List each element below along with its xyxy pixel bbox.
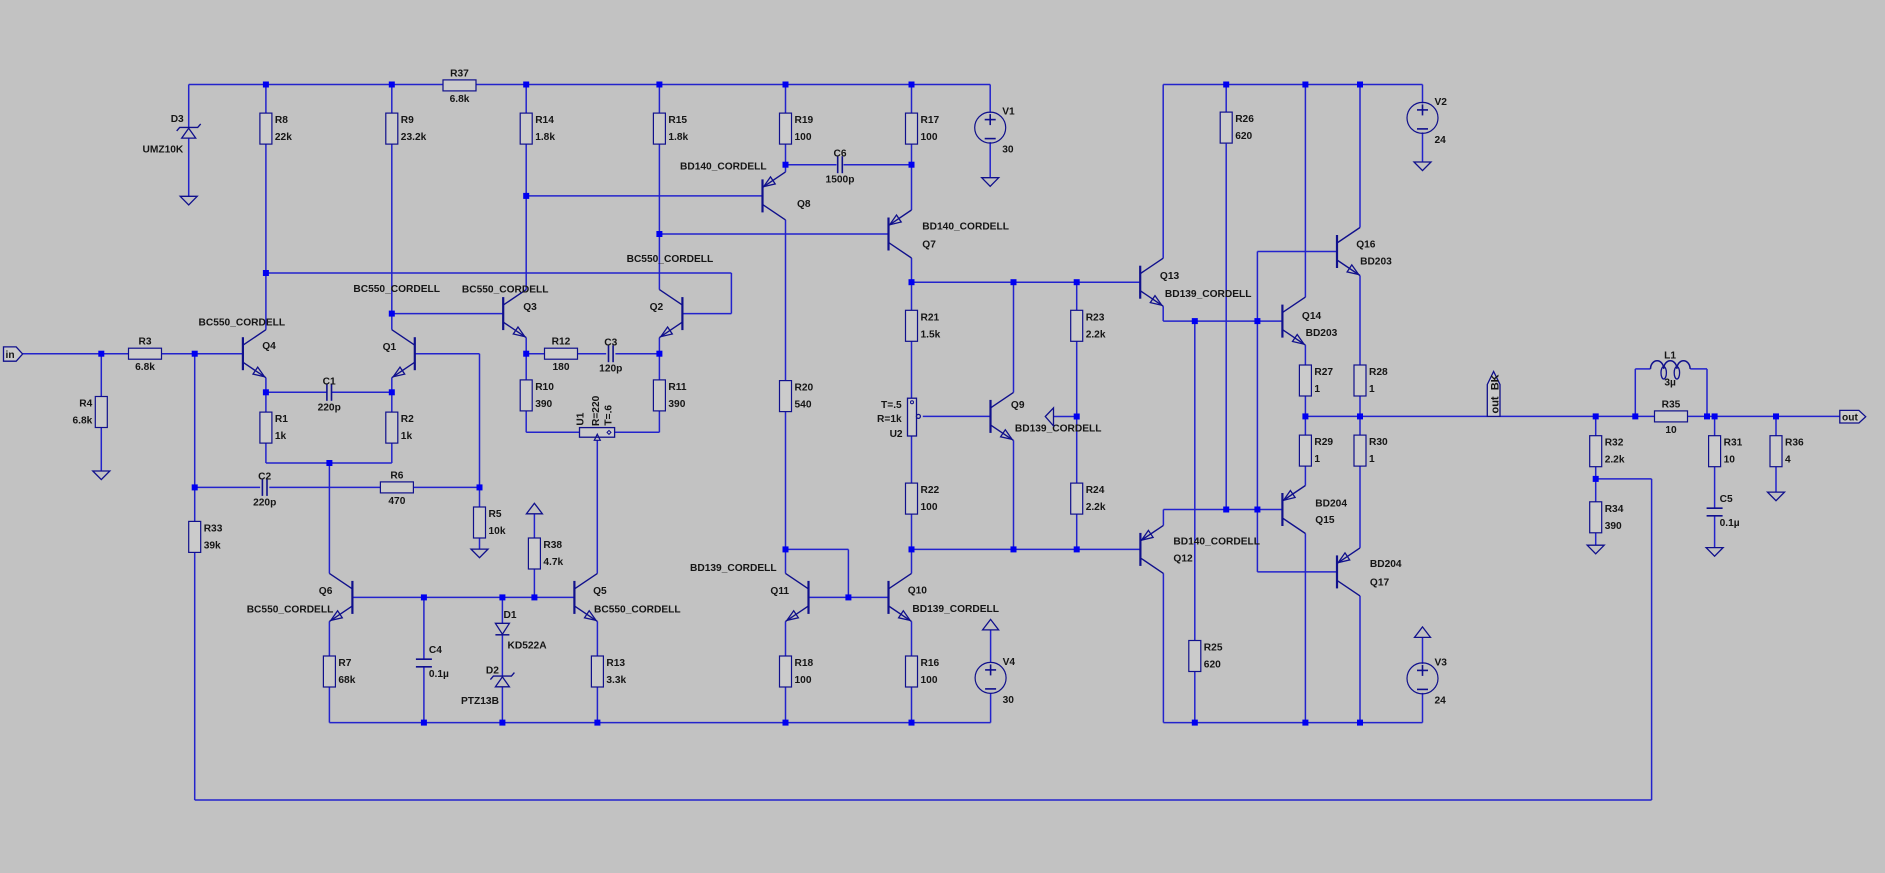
svg-text:D3: D3: [171, 114, 184, 125]
svg-text:Q15: Q15: [1315, 515, 1335, 526]
svg-text:470: 470: [388, 496, 405, 507]
svg-text:R2: R2: [401, 414, 414, 425]
svg-text:1: 1: [1314, 384, 1320, 395]
svg-text:BD139_CORDELL: BD139_CORDELL: [690, 563, 777, 574]
svg-text:R17: R17: [921, 115, 940, 126]
svg-text:V2: V2: [1435, 97, 1448, 108]
svg-text:L1: L1: [1664, 351, 1676, 362]
svg-text:BD139_CORDELL: BD139_CORDELL: [1165, 289, 1252, 300]
svg-text:C2: C2: [258, 471, 271, 482]
svg-text:220p: 220p: [253, 497, 276, 508]
svg-text:Q2: Q2: [650, 302, 664, 313]
svg-text:BD140_CORDELL: BD140_CORDELL: [922, 221, 1009, 232]
svg-text:R24: R24: [1086, 485, 1105, 496]
svg-text:540: 540: [795, 400, 812, 411]
svg-text:1500p: 1500p: [826, 175, 855, 186]
svg-text:R1: R1: [275, 414, 288, 425]
svg-text:C1: C1: [323, 376, 336, 387]
svg-text:120p: 120p: [599, 364, 622, 375]
svg-text:R6: R6: [390, 470, 403, 481]
svg-text:BC550_CORDELL: BC550_CORDELL: [199, 317, 286, 328]
svg-text:R12: R12: [552, 337, 571, 348]
svg-text:1: 1: [1369, 384, 1375, 395]
svg-text:1k: 1k: [401, 431, 413, 442]
svg-text:V1: V1: [1002, 107, 1015, 118]
svg-text:100: 100: [795, 132, 812, 143]
svg-text:R13: R13: [606, 658, 625, 669]
svg-text:68k: 68k: [338, 675, 355, 686]
svg-text:BC550_CORDELL: BC550_CORDELL: [462, 285, 549, 296]
svg-text:Q3: Q3: [523, 302, 537, 313]
svg-text:R20: R20: [795, 383, 814, 394]
svg-text:BD203: BD203: [1306, 328, 1338, 339]
svg-text:Q4: Q4: [262, 341, 276, 352]
svg-text:BD140_CORDELL: BD140_CORDELL: [1173, 536, 1260, 547]
svg-text:Q7: Q7: [922, 240, 936, 251]
svg-text:V3: V3: [1435, 657, 1448, 668]
svg-text:R33: R33: [204, 523, 223, 534]
svg-text:BC550_CORDELL: BC550_CORDELL: [594, 605, 681, 616]
svg-text:PTZ13B: PTZ13B: [461, 696, 499, 707]
svg-text:BD204: BD204: [1315, 499, 1347, 510]
svg-text:D2: D2: [486, 666, 499, 677]
svg-text:D1: D1: [504, 610, 517, 621]
svg-text:out: out: [1842, 413, 1858, 424]
svg-text:R36: R36: [1785, 438, 1804, 449]
svg-text:R28: R28: [1369, 367, 1388, 378]
svg-text:1.5k: 1.5k: [921, 329, 941, 340]
svg-text:UMZ10K: UMZ10K: [143, 144, 184, 155]
svg-text:R35: R35: [1662, 399, 1681, 410]
svg-text:2.2k: 2.2k: [1086, 502, 1106, 513]
svg-text:R=220: R=220: [591, 395, 602, 426]
svg-text:620: 620: [1235, 131, 1252, 142]
svg-text:BC550_CORDELL: BC550_CORDELL: [247, 605, 334, 616]
svg-text:R16: R16: [921, 658, 940, 669]
svg-text:10k: 10k: [489, 526, 506, 537]
svg-text:6.8k: 6.8k: [450, 94, 470, 105]
svg-text:390: 390: [1605, 521, 1622, 532]
svg-text:R11: R11: [668, 382, 686, 393]
svg-text:24: 24: [1435, 695, 1447, 706]
svg-text:KD522A: KD522A: [508, 640, 548, 651]
svg-text:R5: R5: [489, 509, 502, 520]
svg-text:BC550_CORDELL: BC550_CORDELL: [627, 254, 714, 265]
svg-text:T=.6: T=.6: [604, 405, 615, 426]
svg-text:24: 24: [1435, 135, 1447, 146]
svg-text:BD203: BD203: [1360, 257, 1392, 268]
svg-text:in: in: [6, 350, 15, 361]
svg-text:R32: R32: [1605, 438, 1624, 449]
svg-text:0.1µ: 0.1µ: [429, 669, 449, 680]
svg-text:R27: R27: [1314, 367, 1333, 378]
svg-text:C3: C3: [604, 338, 617, 349]
svg-text:R38: R38: [543, 540, 562, 551]
svg-text:100: 100: [921, 132, 938, 143]
svg-text:1k: 1k: [275, 431, 287, 442]
svg-text:0.1µ: 0.1µ: [1720, 518, 1740, 529]
svg-text:BD139_CORDELL: BD139_CORDELL: [912, 604, 999, 615]
svg-text:1.8k: 1.8k: [668, 132, 688, 143]
svg-text:R=1k: R=1k: [877, 414, 902, 425]
svg-text:R10: R10: [535, 382, 554, 393]
svg-text:R25: R25: [1204, 643, 1223, 654]
svg-text:Q6: Q6: [319, 586, 333, 597]
svg-text:100: 100: [921, 502, 938, 513]
svg-text:22k: 22k: [275, 132, 292, 143]
svg-text:3.3k: 3.3k: [606, 675, 626, 686]
svg-text:Q1: Q1: [383, 342, 397, 353]
svg-text:R8: R8: [275, 115, 288, 126]
svg-text:V4: V4: [1003, 657, 1016, 668]
svg-text:Q14: Q14: [1302, 311, 1322, 322]
svg-text:4: 4: [1785, 455, 1791, 466]
svg-text:R23: R23: [1086, 312, 1105, 323]
svg-text:R21: R21: [921, 312, 940, 323]
svg-text:C5: C5: [1720, 494, 1733, 505]
svg-text:390: 390: [668, 399, 685, 410]
svg-text:R34: R34: [1605, 504, 1624, 515]
svg-text:BD204: BD204: [1370, 559, 1402, 570]
svg-text:R26: R26: [1235, 114, 1254, 125]
svg-text:R3: R3: [138, 337, 151, 348]
svg-text:180: 180: [553, 362, 570, 373]
svg-text:Q10: Q10: [908, 586, 928, 597]
svg-text:39k: 39k: [204, 540, 221, 551]
svg-text:Q11: Q11: [770, 586, 789, 597]
svg-text:BD139_CORDELL: BD139_CORDELL: [1015, 423, 1102, 434]
svg-text:4.7k: 4.7k: [543, 557, 563, 568]
svg-text:C6: C6: [833, 149, 846, 160]
svg-text:1: 1: [1314, 454, 1320, 465]
svg-text:Q12: Q12: [1173, 554, 1193, 565]
svg-text:6.8k: 6.8k: [72, 416, 92, 427]
svg-text:6.8k: 6.8k: [135, 362, 155, 373]
svg-text:R19: R19: [795, 115, 814, 126]
svg-text:T=.5: T=.5: [881, 400, 902, 411]
svg-text:30: 30: [1003, 695, 1015, 706]
svg-text:out_BK: out_BK: [1489, 374, 1501, 413]
svg-text:C4: C4: [429, 645, 442, 656]
svg-text:220p: 220p: [318, 402, 341, 413]
svg-text:3µ: 3µ: [1664, 378, 1676, 389]
svg-text:Q13: Q13: [1160, 271, 1180, 282]
svg-text:620: 620: [1204, 660, 1221, 671]
svg-text:Q8: Q8: [797, 199, 811, 210]
svg-text:R29: R29: [1314, 437, 1333, 448]
svg-text:100: 100: [795, 675, 812, 686]
svg-text:R9: R9: [401, 115, 414, 126]
svg-text:R7: R7: [338, 658, 351, 669]
svg-text:R15: R15: [668, 115, 687, 126]
svg-text:1: 1: [1369, 454, 1375, 465]
svg-text:30: 30: [1002, 145, 1014, 156]
svg-text:390: 390: [535, 399, 552, 410]
svg-text:R18: R18: [795, 658, 814, 669]
svg-text:R22: R22: [921, 485, 940, 496]
svg-text:10: 10: [1665, 425, 1677, 436]
svg-text:Q17: Q17: [1370, 578, 1390, 589]
svg-text:100: 100: [921, 675, 938, 686]
svg-text:R31: R31: [1724, 438, 1743, 449]
svg-text:R4: R4: [79, 399, 92, 410]
svg-text:BD140_CORDELL: BD140_CORDELL: [680, 162, 767, 173]
svg-text:Q16: Q16: [1356, 240, 1376, 251]
svg-text:U1: U1: [576, 412, 587, 425]
svg-text:2.2k: 2.2k: [1605, 455, 1625, 466]
svg-text:1.8k: 1.8k: [535, 132, 555, 143]
svg-text:23.2k: 23.2k: [401, 132, 427, 143]
svg-text:R14: R14: [535, 115, 554, 126]
svg-text:2.2k: 2.2k: [1086, 329, 1106, 340]
svg-text:Q5: Q5: [593, 586, 607, 597]
svg-text:BC550_CORDELL: BC550_CORDELL: [353, 284, 440, 295]
svg-text:10: 10: [1724, 455, 1736, 466]
svg-text:U2: U2: [890, 429, 903, 440]
svg-text:R30: R30: [1369, 437, 1388, 448]
svg-text:Q9: Q9: [1011, 400, 1025, 411]
svg-text:R37: R37: [450, 68, 469, 79]
